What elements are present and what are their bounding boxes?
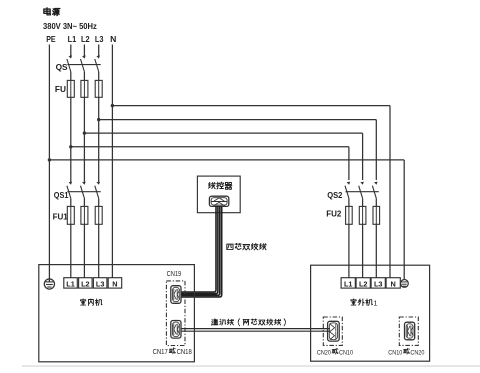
svg-text:CN17: CN17	[153, 349, 168, 356]
svg-text:L3: L3	[374, 279, 383, 288]
svg-text:CN20: CN20	[317, 350, 331, 357]
svg-text:QS: QS	[56, 62, 68, 72]
svg-text:L2: L2	[81, 279, 90, 288]
svg-text:FU2: FU2	[326, 209, 342, 219]
svg-text:1: 1	[373, 298, 377, 307]
svg-text:CN10: CN10	[339, 350, 353, 357]
svg-text:QS1: QS1	[54, 190, 69, 200]
svg-text:L1: L1	[68, 34, 77, 44]
svg-text:CN10: CN10	[388, 350, 402, 357]
svg-text:L3: L3	[95, 34, 104, 44]
svg-text:CN20: CN20	[410, 350, 424, 357]
svg-text:FU1: FU1	[53, 212, 69, 222]
svg-text:N: N	[391, 279, 396, 288]
svg-text:N: N	[110, 34, 116, 44]
svg-text:CN19: CN19	[167, 271, 182, 278]
svg-text:380V 3N~ 50Hz: 380V 3N~ 50Hz	[43, 21, 97, 31]
svg-text:L1: L1	[66, 279, 75, 288]
svg-text:PE: PE	[46, 34, 56, 44]
svg-text:L2: L2	[359, 279, 368, 288]
svg-text:QS2: QS2	[327, 190, 343, 200]
svg-text:N: N	[112, 279, 117, 288]
svg-text:FU: FU	[55, 84, 66, 94]
svg-text:L1: L1	[344, 279, 353, 288]
svg-text:CN18: CN18	[177, 349, 192, 356]
svg-text:L2: L2	[81, 34, 90, 44]
svg-text:L3: L3	[96, 279, 105, 288]
